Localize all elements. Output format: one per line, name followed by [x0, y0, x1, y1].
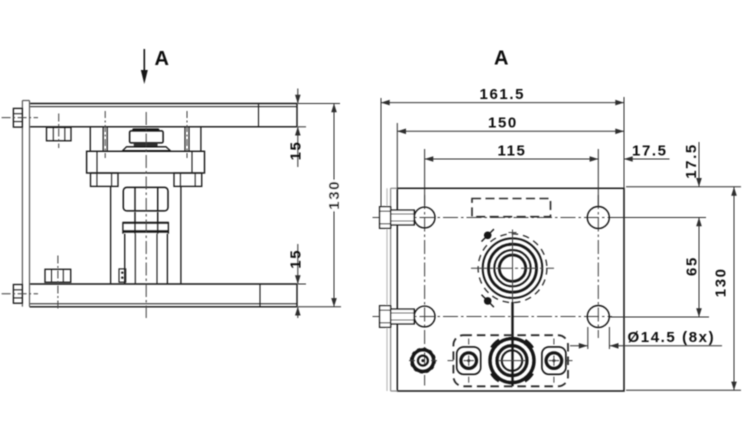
bearing ring 1 — [483, 238, 543, 298]
right connector — [542, 339, 573, 383]
name plate dashed rect — [472, 199, 551, 217]
column centerline right — [597, 195, 599, 338]
bottom left hole circle — [414, 306, 435, 327]
dim 150 — [397, 123, 624, 188]
right stud — [185, 127, 189, 152]
svg-text:A: A — [494, 48, 508, 70]
view arrow A — [141, 49, 148, 84]
load button base — [123, 147, 171, 151]
dim dia 14.5 — [570, 327, 722, 349]
upper left bolt — [13, 108, 22, 127]
hole row extension bottom — [610, 316, 709, 318]
lower column — [125, 234, 168, 284]
RIGHTVIEW — [373, 48, 742, 392]
center thick line — [511, 302, 513, 386]
right stud centerline — [186, 111, 188, 158]
svg-text:115: 115 — [498, 142, 527, 159]
dim 17.5 horizontal — [624, 156, 670, 162]
svg-text:161.5: 161.5 — [480, 86, 526, 103]
svg-text:15: 15 — [288, 249, 305, 269]
upper block — [90, 127, 201, 152]
lower small nut — [45, 269, 71, 282]
left side plate — [22, 101, 29, 307]
top left hole circle — [414, 207, 435, 228]
column centerline left — [424, 195, 426, 386]
neck below nut — [135, 212, 158, 222]
bearing crosshair horizontal — [471, 267, 554, 269]
left stud — [103, 127, 107, 152]
svg-text:130: 130 — [713, 267, 730, 297]
middle connector — [487, 336, 536, 385]
plate bottom extension line — [626, 389, 741, 391]
svg-text:65: 65 — [684, 256, 701, 276]
washer stack — [123, 222, 169, 234]
upper small nut — [47, 127, 72, 140]
dim 130 — [731, 187, 737, 390]
svg-text:17.5: 17.5 — [683, 143, 700, 179]
connector box dashed — [453, 335, 568, 386]
side plate strip — [387, 188, 397, 391]
hole row extension top — [610, 217, 706, 219]
dim 115 — [425, 149, 599, 206]
hex nut — [123, 187, 168, 211]
load button cap body — [130, 131, 164, 143]
LEFTVIEW — [2, 48, 343, 318]
bottom left bolt — [380, 306, 415, 327]
bearing ring 2 — [489, 244, 537, 292]
bearing crosshair vertical — [512, 230, 514, 303]
load button band — [134, 143, 158, 147]
row centerline top — [373, 217, 613, 219]
set screw top — [482, 229, 494, 241]
svg-text:150: 150 — [488, 114, 518, 131]
dim 15 bottom — [295, 244, 306, 318]
top left bolt — [380, 207, 415, 228]
row centerline bottom — [373, 316, 613, 318]
right flange bolt — [174, 173, 202, 186]
base plate outline — [397, 188, 624, 391]
svg-text:Ø14.5 (8x): Ø14.5 (8x) — [628, 329, 716, 346]
left flange bolt — [91, 173, 119, 186]
dim 65 — [696, 218, 702, 318]
lower left bolt centerline — [2, 293, 38, 295]
bottom plate — [30, 284, 298, 307]
bottom right hole — [587, 306, 609, 328]
svg-text:A: A — [155, 48, 169, 70]
upper left bolt centerline — [2, 117, 38, 119]
bearing ring 4 — [499, 255, 525, 281]
top plate — [30, 104, 298, 127]
flange block — [87, 151, 205, 173]
far left connector — [409, 348, 437, 372]
load cell body sides — [111, 186, 181, 284]
set screw bottom — [482, 295, 494, 307]
left stud centerline — [104, 111, 106, 158]
bearing ring 3 — [494, 250, 530, 286]
dim 130 left view — [298, 104, 341, 307]
dim 17.5 vertical — [696, 142, 702, 187]
svg-text:17.5: 17.5 — [632, 143, 668, 160]
small pin — [119, 269, 126, 282]
dim 161.5 — [381, 97, 624, 206]
load button top band — [134, 128, 158, 131]
center line — [145, 112, 147, 318]
lower left bolt — [13, 285, 22, 304]
svg-text:130: 130 — [326, 180, 343, 210]
plate top extension line — [626, 186, 741, 188]
dim 15 top — [295, 89, 306, 168]
top right hole — [587, 207, 609, 229]
svg-text:15: 15 — [288, 141, 305, 161]
upper small nut centerline — [58, 114, 60, 149]
lower small nut centerline — [57, 256, 59, 311]
bearing bolt circle dashed — [478, 234, 547, 303]
left connector — [448, 339, 481, 383]
